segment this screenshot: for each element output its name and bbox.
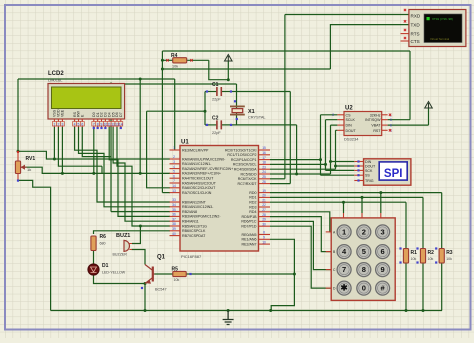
U1 pin 39 RB6/ICSPCLK <box>170 230 181 232</box>
U1 pin 30 RD7/P1D <box>259 225 271 227</box>
resistor R6 <box>91 236 96 251</box>
keypad col pin 1 <box>343 213 345 218</box>
capacitor C1 22pF <box>212 82 221 102</box>
wire R4 right pin <box>187 59 209 61</box>
transistor Q1 BC547 <box>145 255 167 292</box>
svg-text:TRIG: TRIG <box>365 179 374 183</box>
svg-text:1: 1 <box>342 228 346 237</box>
microcontroller U1 PIC16F887 <box>180 140 259 260</box>
wire LCD VDD down <box>58 127 102 173</box>
wire RXD drop to RC6 <box>284 15 286 179</box>
svg-text:14: 14 <box>172 184 176 188</box>
svg-text:RA7/OSC1/CLKIN: RA7/OSC1/CLKIN <box>182 191 212 195</box>
wire C1 right pin <box>222 91 237 93</box>
svg-text:7: 7 <box>93 122 95 126</box>
svg-text:RC5/SDO: RC5/SDO <box>241 172 257 176</box>
svg-text:2: 2 <box>362 228 366 237</box>
svg-text:17: 17 <box>262 156 266 160</box>
U2 pin SCLK <box>337 119 344 121</box>
svg-text:13: 13 <box>172 189 176 193</box>
svg-text:9: 9 <box>101 122 103 126</box>
svg-text:21: 21 <box>262 198 266 202</box>
svg-text:DIN: DIN <box>365 160 372 164</box>
svg-text:6: 6 <box>81 122 83 126</box>
wire C1 left pin <box>205 91 216 93</box>
wire R4-left vertical to RA7 <box>161 51 163 193</box>
svg-text:DOUT: DOUT <box>365 165 376 169</box>
potentiometer RV1 <box>15 151 35 182</box>
keypad col pin 2 <box>361 213 363 218</box>
svg-text:U1: U1 <box>181 140 189 146</box>
wire Q1 emitter drop <box>144 284 146 311</box>
wire net y69 <box>162 68 330 70</box>
wire net y84 <box>111 83 237 85</box>
svg-text:3: 3 <box>381 228 385 237</box>
svg-text:6: 6 <box>173 174 175 178</box>
svg-text:RC1/T1OSI/CCP2: RC1/T1OSI/CCP2 <box>227 153 256 157</box>
U1 pin 9 RE1/AN6 <box>259 238 271 240</box>
LCD display LCD2 LM016L <box>48 71 125 127</box>
node sclk node <box>324 163 327 166</box>
U1 pin 18 RC3/SCK/SCL <box>259 163 271 165</box>
capacitor C2 22pF <box>212 116 221 136</box>
svg-text:PIC16F887: PIC16F887 <box>181 254 202 259</box>
node dout node <box>334 165 337 168</box>
svg-text:C1: C1 <box>212 82 219 88</box>
svg-text:RB2/AN8: RB2/AN8 <box>182 210 197 214</box>
buzzer BUZ1 <box>113 233 133 257</box>
node J4 <box>139 172 142 175</box>
svg-text:R5: R5 <box>172 267 179 273</box>
wire buzzer feed <box>132 226 140 244</box>
svg-text:RB3/AN9/PGM/C12IN2-: RB3/AN9/PGM/C12IN2- <box>182 215 221 219</box>
wire RE1 net drop <box>270 239 294 310</box>
svg-text:8: 8 <box>97 122 99 126</box>
svg-text:R4: R4 <box>171 53 178 59</box>
svg-text:RB1/AN10/C12IN3-: RB1/AN10/C12IN3- <box>182 205 214 209</box>
svg-text:LCD2: LCD2 <box>48 71 64 77</box>
wire RD0 to col3 and R3 <box>270 193 442 248</box>
svg-text:1: 1 <box>173 146 175 150</box>
wire OSC drop to RA6 <box>147 111 170 188</box>
keypad row pin C <box>326 269 332 271</box>
svg-text:40: 40 <box>172 232 176 236</box>
svg-text:8: 8 <box>362 265 366 274</box>
node J1 <box>139 78 142 81</box>
node rail j2 <box>269 309 272 312</box>
svg-text:22pF: 22pF <box>212 98 221 102</box>
svg-text:RB0/AN12/INT: RB0/AN12/INT <box>182 200 207 204</box>
U1 pin 6 RA4/T0CKI/C1OUT <box>170 177 181 179</box>
resistor R6 680 <box>91 234 106 251</box>
SPI pin SCK <box>354 169 363 171</box>
svg-text:RA3/AN3/VREF+/C1IN+: RA3/AN3/VREF+/C1IN+ <box>182 172 221 176</box>
keypad button 1 <box>337 225 351 239</box>
svg-text:9: 9 <box>381 265 385 274</box>
svg-text:D7: D7 <box>119 112 123 117</box>
svg-text:2: 2 <box>332 113 334 117</box>
U2 pin DOUT <box>337 129 344 131</box>
wire U2 VBAT to arrow <box>388 108 429 125</box>
keypad button 9 <box>376 263 390 277</box>
wire drop to RC5 <box>296 125 298 174</box>
keypad button 5 <box>357 245 371 259</box>
svg-text:SCK: SCK <box>365 169 373 173</box>
U2 pin RST <box>382 129 388 131</box>
wire RV1 top to rail <box>17 79 19 152</box>
svg-text:RD3: RD3 <box>249 205 256 209</box>
svg-text:33: 33 <box>172 198 176 202</box>
wire R5 right run <box>186 273 294 275</box>
svg-text:29: 29 <box>262 218 266 222</box>
node buz node <box>139 225 142 228</box>
svg-text:37: 37 <box>172 217 176 221</box>
svg-text:D1: D1 <box>102 263 109 269</box>
keypad button 7 <box>337 263 351 277</box>
wire R3 bottom <box>441 263 443 311</box>
U1 pin 17 RC2/P1A/CCP1 <box>259 159 271 161</box>
wire LCD VEE down <box>61 127 63 173</box>
wire R4 left pin <box>162 59 172 61</box>
U1 pin 26 RC7/RX/DT <box>259 183 271 185</box>
svg-text:R6: R6 <box>100 234 107 240</box>
keypad button 6 <box>376 245 390 259</box>
wire TXD riser <box>330 25 409 69</box>
keypad button 0 <box>357 281 371 295</box>
svg-text:Q1: Q1 <box>157 255 166 261</box>
U1 pin 14 RA6/OSC2/CLKOUT <box>170 187 181 189</box>
svg-text:RA2/AN2/VREF-/CVREF/C2IN+: RA2/AN2/VREF-/CVREF/C2IN+ <box>182 167 233 171</box>
resistor R3 <box>439 249 444 264</box>
svg-text:36: 36 <box>172 213 176 217</box>
svg-text:4: 4 <box>74 122 76 126</box>
wire RC2 to U2 CS <box>270 115 354 175</box>
svg-text:RV1: RV1 <box>26 156 36 162</box>
U1 pin 13 RA7/OSC1/CLKIN <box>170 192 181 194</box>
svg-text:39: 39 <box>172 227 176 231</box>
svg-text:1k: 1k <box>27 167 31 172</box>
wire BUZ1 bottom to Q1 collector <box>132 250 146 265</box>
resistor R4 <box>173 58 187 63</box>
wire RC4 to U2 DOUT <box>270 130 354 169</box>
svg-text:RXD: RXD <box>411 14 421 19</box>
svg-text:7: 7 <box>173 179 175 183</box>
U1 pin 3 RA1/AN1/C12IN1- <box>170 163 181 165</box>
node col2 node <box>361 196 364 199</box>
keypad row pin D <box>326 287 332 289</box>
svg-text:RA1/AN1/C12IN1-: RA1/AN1/C12IN1- <box>182 162 212 166</box>
svg-text:RD0: RD0 <box>249 191 256 195</box>
RTC U2 DS3234 <box>337 106 392 142</box>
U1 pin 8 RE0/AN5 <box>259 234 271 236</box>
svg-text:0: 0 <box>362 284 366 293</box>
power symbol +V (U2 VBAT) <box>425 102 433 109</box>
node d0 node <box>92 172 95 175</box>
U1 pin 5 RA3/AN3/VREF+/C1IN+ <box>170 172 181 174</box>
svg-text:8: 8 <box>263 231 265 235</box>
wire U2 INT riser <box>388 51 410 120</box>
wire LCD D5 to RB4 <box>113 127 170 221</box>
keypad button ✱ <box>337 281 351 295</box>
U1 pin 2 RA0/AN0/ULPWU/C12IN0- <box>170 158 181 160</box>
wire RC3 to U2 SCLK <box>270 120 354 171</box>
node col3 node <box>379 191 382 194</box>
U1 pin 1 RE3/MCLR/VPP <box>170 149 181 151</box>
svg-text:10k: 10k <box>172 65 178 69</box>
wire LED to emitter node <box>94 275 146 284</box>
wire R6 to LED <box>93 251 95 265</box>
svg-text:19: 19 <box>262 189 266 193</box>
U1 pin 7 RA5/AN4/SS/C2OUT <box>170 182 181 184</box>
keypad 4x3 <box>326 213 396 300</box>
svg-text:3: 3 <box>173 160 175 164</box>
svg-text:3: 3 <box>390 118 392 122</box>
keypad row pin A <box>326 231 332 233</box>
ground symbol <box>223 311 234 325</box>
svg-text:RC4/SDI/SDA: RC4/SDI/SDA <box>234 168 257 172</box>
SPI debugger <box>354 159 411 185</box>
svg-text:4: 4 <box>173 165 175 169</box>
svg-text:26: 26 <box>262 180 266 184</box>
U1 pin 21 RD2 <box>259 201 271 203</box>
svg-text:30: 30 <box>262 222 266 226</box>
terminal CTS stub <box>401 40 409 42</box>
keypad button 4 <box>337 245 351 259</box>
svg-text:9: 9 <box>263 236 265 240</box>
node din node <box>329 160 332 163</box>
wire VCC rail y79 <box>18 78 175 80</box>
svg-text:R2: R2 <box>428 250 435 256</box>
virtual terminal VT1 <box>409 10 466 47</box>
wire R1 R2 bottoms <box>406 263 423 311</box>
wire LCD D0 stub down <box>93 127 95 173</box>
resistor R4 10k <box>171 53 187 69</box>
svg-text:5: 5 <box>362 247 366 256</box>
wire C2 left pin <box>205 124 216 126</box>
U1 pin 19 RD0 <box>259 192 271 194</box>
svg-text:6: 6 <box>381 247 385 256</box>
svg-text:RA6/OSC2/CLKOUT: RA6/OSC2/CLKOUT <box>182 186 216 190</box>
node rc5 node <box>295 173 298 176</box>
node rail gnd <box>227 309 230 312</box>
svg-text:6: 6 <box>390 124 392 128</box>
svg-text:RB7/ICSPDAT: RB7/ICSPDAT <box>182 234 206 238</box>
keypad row pin B <box>326 251 332 253</box>
wire crystal right rail <box>236 84 238 125</box>
svg-text:R1: R1 <box>411 250 418 256</box>
U2 pin DIN <box>337 124 344 126</box>
svg-text:14: 14 <box>119 122 123 126</box>
wire RA7 entry <box>162 192 170 194</box>
svg-text:BC547: BC547 <box>155 288 167 292</box>
svg-text:SCLK: SCLK <box>346 118 356 122</box>
resistor R1 <box>403 249 408 264</box>
wire RD1 to col2 and R2 <box>270 197 423 248</box>
svg-text:LM016L: LM016L <box>48 78 63 83</box>
svg-text:TXD: TXD <box>411 23 421 28</box>
U1 pin 16 RC1/T1OSI/CCP2 <box>259 154 271 156</box>
wire crystal left rail <box>204 92 206 125</box>
wire LCD RW to RB1 <box>79 127 171 207</box>
U1 pin 37 RB4/AN11 <box>170 220 181 222</box>
wire LCD VSS down <box>53 127 55 159</box>
svg-text:RA0/AN0/ULPWU/C12IN0-: RA0/AN0/ULPWU/C12IN0- <box>182 157 226 161</box>
wire RD5 to row B <box>270 217 331 252</box>
node emitter node <box>144 282 147 285</box>
svg-text:DOUT: DOUT <box>346 129 357 133</box>
svg-text:23: 23 <box>262 165 266 169</box>
U2 pin VBAT <box>382 124 388 126</box>
svg-text:RB4/AN11: RB4/AN11 <box>182 220 199 224</box>
U1 pin 34 RB1/AN10/C12IN3- <box>170 206 181 208</box>
svg-text:2: 2 <box>173 155 175 159</box>
svg-text:SS: SS <box>365 174 370 178</box>
svg-text:RST: RST <box>373 129 381 133</box>
svg-text:INT/SQW: INT/SQW <box>365 118 381 122</box>
svg-text:RD4: RD4 <box>249 210 256 214</box>
node R4 left node <box>161 59 164 62</box>
svg-text:DS3234: DS3234 <box>344 137 359 142</box>
wire R6 feed from RB6 <box>94 231 171 234</box>
svg-text:VBAT: VBAT <box>371 124 381 128</box>
wire RD7 to row D <box>270 226 331 288</box>
svg-text:35: 35 <box>172 208 176 212</box>
svg-text:RTS: RTS <box>411 32 420 37</box>
wire RA0 net <box>18 151 170 159</box>
svg-text:34: 34 <box>172 203 176 207</box>
svg-text:CRYSTAL: CRYSTAL <box>248 115 266 120</box>
U2 pin INT/SQW <box>382 119 388 121</box>
terminal RTS stub <box>401 33 409 35</box>
wire C2 right pin <box>222 124 297 126</box>
keypad col pin 3 <box>380 213 382 218</box>
resistor R2 10k <box>420 249 434 264</box>
svg-text:CS: CS <box>346 113 352 117</box>
crystal X1 <box>230 106 266 119</box>
svg-text:RA4/T0CKI/C1OUT: RA4/T0CKI/C1OUT <box>182 177 214 181</box>
node osc tap <box>204 110 207 113</box>
svg-text:RE2/AN7: RE2/AN7 <box>242 242 257 246</box>
resistor R2 <box>420 249 425 264</box>
svg-text:10: 10 <box>262 240 266 244</box>
svg-text:1: 1 <box>53 122 55 126</box>
wire C1 row extension <box>237 91 291 93</box>
keypad button 2 <box>357 225 371 239</box>
SPI pin SS <box>354 174 363 176</box>
svg-text:SPI: SPI <box>384 168 403 180</box>
wire RV1 bottom to ground <box>18 180 51 310</box>
svg-text:RC0/T1OSO/T1CKI: RC0/T1OSO/T1CKI <box>225 148 257 152</box>
U1 pin 29 RD6/P1C <box>259 220 271 222</box>
svg-text:RE1/AN6: RE1/AN6 <box>242 238 257 242</box>
U1 pin 40 RB7/ICSPDAT <box>170 235 181 237</box>
svg-text:10k: 10k <box>428 257 434 261</box>
wire power arrow1 stem <box>227 61 229 80</box>
svg-text:VT01 (7/16..98): VT01 (7/16..98) <box>432 17 453 21</box>
U1 pin 38 RB5/AN13/T1G <box>170 225 181 227</box>
wire RC6 entry <box>270 178 285 180</box>
wire drop to RC7 <box>289 92 291 184</box>
wire OSC tap <box>147 110 205 112</box>
SPI pin TRIG <box>354 180 363 182</box>
resistor R3 10k <box>439 249 453 264</box>
wire LCD D6 to RB5 <box>117 127 170 226</box>
svg-text:18: 18 <box>262 161 266 165</box>
svg-text:RC6/TX/CK: RC6/TX/CK <box>238 177 257 181</box>
svg-text:Virtual Terminal: Virtual Terminal <box>430 37 450 41</box>
svg-text:10k: 10k <box>446 257 452 261</box>
wire RD4 to row A <box>270 212 331 232</box>
svg-text:22: 22 <box>262 203 266 207</box>
wire RD6 to row C <box>270 221 331 269</box>
SPI pin DIN <box>354 161 363 163</box>
U1 pin 22 RD3 <box>259 206 271 208</box>
resistor R5 10k <box>172 267 187 283</box>
wire ground rail <box>51 310 442 312</box>
wire LCD RS to RB0 <box>75 127 170 202</box>
wire wiper net to RA3 <box>21 167 171 173</box>
U1 pin 10 RE2/AN7 <box>259 243 271 245</box>
U1 pin 23 RC4/SDI/SDA <box>259 168 271 170</box>
U1 pin 24 RC5/SDO <box>259 173 271 175</box>
svg-text:25: 25 <box>262 175 266 179</box>
svg-text:CTS: CTS <box>411 39 420 44</box>
node vss node <box>53 158 56 161</box>
svg-text:22pF: 22pF <box>212 131 221 135</box>
U2 pin CS <box>337 114 344 116</box>
resistor R1 10k <box>403 249 417 264</box>
svg-text:RD7/P1D: RD7/P1D <box>241 225 257 229</box>
keypad button # <box>376 281 390 295</box>
wire rail to MCLR <box>174 79 176 150</box>
svg-text:16: 16 <box>262 151 266 155</box>
svg-text:RD2: RD2 <box>249 201 256 205</box>
svg-text:RE3/MCLR/VPP: RE3/MCLR/VPP <box>182 148 209 152</box>
svg-text:680: 680 <box>100 242 106 246</box>
U1 pin 25 RC6/TX/CK <box>259 178 271 180</box>
svg-text:RC2/P1A/CCP1: RC2/P1A/CCP1 <box>231 158 257 162</box>
svg-text:RD5/P1B: RD5/P1B <box>242 215 258 219</box>
svg-text:27: 27 <box>262 208 266 212</box>
svg-text:RB6/ICSPCLK: RB6/ICSPCLK <box>182 229 206 233</box>
svg-text:U2: U2 <box>345 106 353 112</box>
wire R4 right drop <box>209 60 229 79</box>
wire RD2 to col1 and R1 <box>270 202 406 248</box>
U1 pin 27 RD4 <box>259 211 271 213</box>
svg-text:38: 38 <box>172 222 176 226</box>
svg-text:BUZZER: BUZZER <box>113 253 128 257</box>
resistor R5 <box>173 271 186 276</box>
node vee node <box>61 172 64 175</box>
SPI pin DOUT <box>354 165 363 167</box>
U1 pin 35 RB2/AN8 <box>170 211 181 213</box>
svg-text:15: 15 <box>262 146 266 150</box>
keypad button 3 <box>376 225 390 239</box>
svg-text:2: 2 <box>57 122 59 126</box>
U1 pin 33 RB0/AN12/INT <box>170 201 181 203</box>
node J2 <box>161 68 164 71</box>
node J3 <box>110 83 113 86</box>
svg-text:✱: ✱ <box>341 283 349 293</box>
svg-text:R3: R3 <box>446 250 453 256</box>
svg-text:10k: 10k <box>174 278 180 282</box>
svg-text:RD1: RD1 <box>249 196 256 200</box>
node cs node <box>319 158 322 161</box>
keypad button 8 <box>357 263 371 277</box>
node rail r2 <box>422 309 425 312</box>
U1 pin 15 RC0/T1OSO/T1CKI <box>259 149 271 151</box>
node base net node <box>293 273 296 276</box>
